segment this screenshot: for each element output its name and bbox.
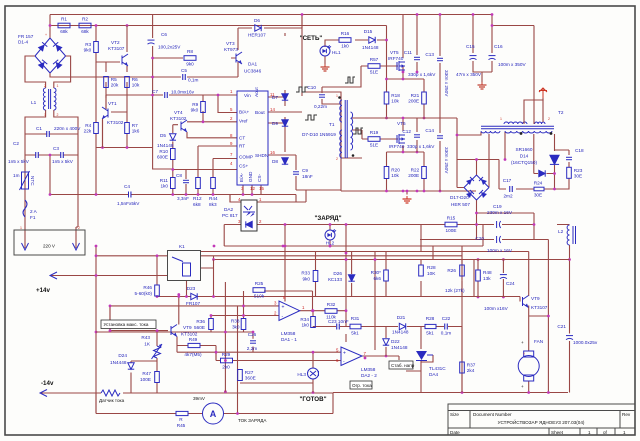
capacitor C16 [489, 44, 527, 67]
wire C1 row [25, 133, 78, 135]
svg-text:1K: 1K [144, 342, 151, 347]
svg-text:1N4448: 1N4448 [110, 360, 127, 365]
svg-text:+: + [282, 305, 285, 311]
svg-text:Стаб. напр: Стаб. напр [391, 363, 415, 368]
svg-text:D15: D15 [364, 29, 373, 34]
resistor R4 [84, 123, 99, 134]
svg-text:HL1: HL1 [332, 50, 341, 55]
wire R57 row [341, 66, 398, 87]
svg-text:C10: C10 [307, 85, 316, 90]
capacitor C15 [456, 44, 482, 77]
svg-text:1: 1 [57, 84, 59, 88]
svg-text:R9: R9 [192, 102, 198, 107]
svg-text:HER107: HER107 [248, 33, 266, 38]
meter A [203, 403, 224, 424]
svg-text:R8: R8 [187, 49, 193, 54]
diode D15 [362, 29, 379, 50]
svg-text:1n5 x 5kV: 1n5 x 5kV [8, 159, 30, 164]
svg-text:6k8: 6k8 [193, 202, 201, 207]
svg-text:R15: R15 [447, 215, 456, 220]
svg-text:KT3102: KT3102 [170, 116, 187, 121]
svg-text:560E: 560E [194, 325, 205, 330]
wire IC right [268, 90, 302, 190]
svg-text:R24: R24 [534, 181, 543, 186]
lamp HL3 [297, 368, 318, 379]
svg-text:2: 2 [336, 157, 338, 161]
waveform glyph 3 [345, 77, 355, 83]
svg-text:КС133: КС133 [328, 277, 342, 282]
label ogr [350, 381, 372, 389]
svg-text:D23: D23 [187, 286, 196, 291]
wire R25 feedback [264, 291, 313, 311]
wire DA2 wires [313, 327, 399, 361]
wire R20 R22 col [387, 146, 425, 191]
wire aux bus R1 R2 row [50, 15, 310, 43]
diode D14a [511, 147, 559, 165]
resistor R30 [425, 324, 436, 328]
transistor VT3 [224, 41, 242, 64]
wire VT3 [231, 28, 238, 77]
wire DA2 minus in row [216, 352, 341, 360]
resistor R15 [445, 215, 457, 233]
relay K1 [168, 244, 201, 281]
wire meter row [96, 393, 333, 414]
svg-text:D6: D6 [254, 18, 260, 23]
junction right rails [568, 258, 571, 261]
svg-text:VT9: VT9 [531, 296, 540, 301]
svg-text:R7: R7 [132, 123, 138, 128]
svg-text:30E: 30E [534, 193, 542, 198]
waveform glyph 1 [296, 87, 308, 92]
svg-text:+: + [521, 384, 524, 389]
capacitor C3 [52, 146, 74, 164]
diode D14b [539, 170, 545, 176]
svg-text:R28: R28 [426, 316, 435, 321]
wire D14 R24 area [499, 150, 569, 189]
svg-text:1k6: 1k6 [132, 129, 140, 134]
wire DA1 minus in row [211, 291, 279, 319]
svg-text:Rev: Rev [622, 412, 631, 417]
svg-text:(16CTQ150): (16CTQ150) [511, 160, 537, 165]
svg-text:100m x 16V: 100m x 16V [487, 248, 513, 253]
svg-text:3k0: 3k0 [232, 325, 240, 330]
transformer T1 [329, 96, 354, 158]
svg-text:5-60(k0): 5-60(k0) [135, 291, 153, 296]
svg-text:F1: F1 [30, 215, 36, 220]
resistor R49 [188, 343, 200, 347]
svg-text:5k1: 5k1 [426, 331, 434, 336]
svg-text:1N4148: 1N4148 [391, 345, 408, 350]
svg-text:D8: D8 [272, 159, 278, 164]
capacitor C4 [117, 184, 140, 206]
diode D23 [186, 286, 200, 306]
svg-text:R33: R33 [301, 271, 310, 276]
resistor R26 [460, 265, 465, 276]
wire R18 R21 col [387, 72, 425, 118]
svg-text:1: 1 [20, 226, 22, 230]
diode D8 [272, 158, 288, 164]
capacitor C7 [152, 89, 195, 98]
wire R36 R38 bottoms [211, 330, 244, 333]
svg-text:HL3: HL3 [297, 372, 306, 377]
junction HL2 top [329, 223, 332, 226]
wire res row bottoms [352, 281, 462, 297]
svg-text:FR 157: FR 157 [18, 34, 34, 39]
junction H2 dots [126, 24, 129, 27]
resistor R8 [184, 49, 196, 67]
resistor R38 [241, 319, 246, 330]
svg-text:4k7(M5): 4k7(M5) [184, 352, 202, 357]
arrow plus14 [50, 272, 57, 279]
svg-text:"ЗАРЯД": "ЗАРЯД" [314, 215, 341, 222]
diode D22 [383, 339, 408, 350]
svg-text:R4: R4 [85, 123, 91, 128]
wire top bus [50, 14, 492, 16]
diode D7 [272, 94, 288, 100]
svg-text:R48: R48 [483, 270, 492, 275]
svg-text:R19: R19 [370, 130, 379, 135]
svg-text:2,2m: 2,2m [247, 346, 258, 351]
svg-text:VT3: VT3 [226, 41, 235, 46]
wire minus14 row [40, 392, 96, 394]
optocoupler DA2 PC817 [222, 197, 262, 231]
junction C2C3 mid [49, 154, 52, 157]
svg-text:100E: 100E [446, 228, 457, 233]
svg-text:R2: R2 [82, 16, 88, 21]
svg-text:C3: C3 [53, 146, 59, 151]
wire C13 col [439, 15, 441, 119]
svg-text:R5: R5 [111, 77, 117, 82]
svg-text:1N4148: 1N4148 [157, 143, 174, 148]
svg-text:330p x 1,6kV: 330p x 1,6kV [408, 72, 436, 77]
zener D26 [328, 271, 355, 282]
wire VT2 base row [96, 52, 127, 72]
svg-text:DA1: DA1 [248, 62, 258, 67]
svg-text:22k: 22k [84, 129, 92, 134]
svg-text:1: 1 [336, 94, 338, 98]
svg-text:C15: C15 [466, 44, 475, 49]
svg-text:B/A+: B/A+ [239, 110, 250, 115]
svg-text:C9: C9 [302, 168, 308, 173]
resistor R3 [84, 42, 99, 53]
svg-text:T1: T1 [329, 122, 335, 127]
svg-text:DA2 - 2: DA2 - 2 [361, 373, 377, 378]
svg-text:T2: T2 [558, 110, 564, 115]
svg-text:R11: R11 [160, 178, 169, 183]
wire C15 drop [473, 15, 492, 83]
svg-text:R43: R43 [141, 335, 150, 340]
choke L1 [31, 88, 56, 110]
junction R18 col [385, 39, 388, 42]
svg-text:2: 2 [57, 113, 59, 117]
wire HL3 [240, 379, 313, 393]
junction C4 bus dots [171, 193, 174, 196]
svg-text:1: 1 [44, 113, 46, 117]
svg-text:LM358: LM358 [361, 367, 376, 372]
capacitor C6 [148, 32, 182, 50]
svg-text:330n x 250V: 330n x 250V [444, 147, 449, 174]
resistor R37 [460, 362, 476, 373]
svg-text:C1: C1 [36, 126, 42, 131]
resistor R18 [384, 92, 400, 104]
thermistor NTC [13, 171, 35, 190]
svg-text:12k (27k): 12k (27k) [445, 288, 465, 293]
waveform glyph 4 [353, 128, 363, 134]
shunt TL431 DA4 [416, 351, 446, 377]
junction minus in [242, 314, 245, 317]
capacitor C14 [425, 128, 449, 174]
resistor R1 [58, 16, 70, 34]
svg-text:C16: C16 [494, 44, 503, 49]
wire L1 bottoms [25, 110, 78, 240]
svg-text:KT3102: KT3102 [181, 332, 198, 337]
svg-text:6k6: 6k6 [373, 276, 381, 281]
svg-text:IRF740: IRF740 [388, 56, 404, 61]
svg-text:Sheet: Sheet [551, 430, 564, 435]
mosfet VT6 [389, 121, 406, 149]
svg-text:D26: D26 [333, 271, 342, 276]
svg-text:10k: 10k [391, 99, 399, 104]
svg-text:1k0: 1k0 [341, 43, 349, 48]
resistor R9 [191, 102, 206, 113]
wire D6 row [238, 15, 302, 29]
power arrow T2 [539, 88, 547, 98]
wire bridge left arm [25, 56, 71, 88]
svg-text:-14v: -14v [41, 380, 54, 387]
trimmer R43 [141, 335, 162, 359]
svg-text:1: 1 [588, 430, 591, 435]
wire VT2 collector [126, 26, 128, 53]
svg-text:FR107: FR107 [186, 301, 200, 306]
capacitor C20 [475, 236, 512, 253]
capacitor C12 [402, 129, 435, 149]
svg-text:C18: C18 [575, 148, 584, 153]
title block [448, 404, 635, 435]
sensor zigzag [101, 390, 120, 396]
svg-text:200E: 200E [408, 99, 419, 104]
svg-text:2: 2 [44, 84, 46, 88]
svg-text:R45: R45 [177, 423, 186, 428]
svg-text:2: 2 [548, 117, 550, 121]
inductor L2 [558, 225, 576, 245]
svg-text:D7-D10 1N5919: D7-D10 1N5919 [302, 132, 336, 137]
diode D24 [110, 353, 134, 369]
svg-text:51E: 51E [370, 69, 378, 74]
svg-text:18nF: 18nF [302, 174, 313, 179]
svg-text:VT5: VT5 [390, 50, 399, 55]
svg-text:VT6: VT6 [397, 121, 406, 126]
svg-text:R6: R6 [132, 77, 138, 82]
wire VT10 [528, 306, 530, 317]
wire VT5 drain col [402, 15, 404, 73]
svg-text:100,2x25V: 100,2x25V [158, 45, 181, 50]
transformer T2 [481, 110, 564, 135]
svg-text:9k0: 9k0 [302, 277, 310, 282]
svg-text:DA2: DA2 [224, 207, 234, 212]
capacitor C5 [181, 68, 199, 83]
svg-text:C12: C12 [402, 129, 411, 134]
svg-text:1: 1 [623, 430, 626, 435]
svg-text:D5: D5 [160, 133, 166, 138]
svg-text:39mV: 39mV [193, 396, 206, 401]
svg-text:R18: R18 [391, 93, 400, 98]
svg-text:200E: 200E [408, 173, 419, 178]
svg-text:R1: R1 [61, 16, 67, 21]
junction VT6 rows [402, 117, 405, 120]
junction lower mid dots [210, 314, 213, 317]
svg-text:10,0mx16v: 10,0mx16v [171, 90, 195, 95]
svg-text:KT3107: KT3107 [108, 46, 125, 51]
wire T2 secondary drops [457, 132, 555, 189]
junction low rail [101, 146, 104, 149]
svg-text:360E: 360E [245, 376, 256, 381]
svg-text:R38: R38 [231, 319, 240, 324]
resistor R10 [157, 149, 175, 160]
svg-text:30E: 30E [574, 173, 582, 178]
lamp HL1 [320, 46, 341, 57]
wire rail y297 [157, 279, 520, 302]
resistor R24 [534, 187, 544, 191]
wire rail y246 [96, 225, 483, 260]
resistor R48 [476, 270, 481, 281]
wire C4 ground bus [50, 195, 296, 203]
svg-text:C17: C17 [503, 178, 512, 183]
svg-text:R30*: R30* [371, 270, 382, 275]
svg-text:220 V: 220 V [43, 244, 56, 249]
resistor R11 [160, 178, 175, 189]
capacitor C22 [441, 316, 452, 336]
svg-text:1k0: 1k0 [160, 184, 168, 189]
svg-text:VT1: VT1 [108, 101, 117, 106]
svg-text:+: + [343, 351, 346, 357]
svg-text:R16: R16 [341, 31, 350, 36]
wire opto right col [284, 225, 286, 247]
transistor VT1 [102, 101, 124, 125]
svg-text:2k4: 2k4 [467, 368, 475, 373]
svg-text:8k3: 8k3 [209, 202, 217, 207]
svg-text:0,22m: 0,22m [314, 104, 327, 109]
svg-text:DA4: DA4 [429, 372, 439, 377]
svg-text:220n x 400V: 220n x 400V [54, 126, 81, 131]
wire D21 D22 TL431 [375, 225, 462, 393]
wire FAN col [529, 316, 549, 393]
resistor R5 [104, 77, 119, 88]
svg-text:C5: C5 [181, 68, 187, 73]
svg-text:68k: 68k [81, 29, 89, 34]
svg-text:1N4148: 1N4148 [392, 330, 409, 335]
svg-text:0,1m: 0,1m [188, 78, 199, 83]
wire relay area [50, 246, 238, 414]
svg-text:510k: 510k [254, 293, 265, 298]
svg-text:10K: 10K [427, 271, 436, 276]
svg-text:C7: C7 [152, 89, 158, 94]
svg-text:9k0: 9k0 [186, 61, 194, 66]
diode D9 [272, 120, 288, 126]
svg-text:R29: R29 [222, 352, 231, 357]
svg-text:L1: L1 [31, 100, 37, 105]
svg-text:R57: R57 [370, 57, 379, 62]
wire DA2 plus in row [177, 337, 341, 369]
capacitor C11 [404, 50, 437, 77]
junction FAN col [547, 315, 550, 318]
svg-text:HER 507: HER 507 [451, 202, 470, 207]
resistor R6 [125, 77, 140, 88]
svg-text:16: 16 [270, 150, 275, 155]
svg-text:R26: R26 [447, 268, 456, 273]
svg-text:CS-: CS- [257, 173, 262, 182]
svg-text:NTC: NTC [30, 176, 35, 186]
junction relay rail dots [95, 274, 98, 277]
svg-text:0,1m: 0,1m [441, 331, 452, 336]
svg-text:C4: C4 [124, 184, 130, 189]
wire VT9 area [96, 297, 333, 394]
svg-text:2 A: 2 A [30, 209, 38, 214]
wire bottom right rail [333, 246, 568, 393]
svg-text:D17-D20: D17-D20 [450, 195, 469, 200]
wire C12 C14 cols [417, 118, 440, 191]
svg-text:LM358: LM358 [281, 331, 296, 336]
wire DA1 out [285, 225, 346, 327]
svg-text:SR1660: SR1660 [516, 147, 533, 152]
svg-text:SHDN: SHDN [255, 153, 268, 158]
svg-text:330n x 250V: 330n x 250V [444, 70, 449, 97]
wire R9 stub [202, 95, 204, 102]
wire C2 C3 row [25, 155, 78, 195]
transistor VT2 [108, 40, 128, 66]
capacitor C19 [487, 204, 513, 228]
wire VT1 emitter link [103, 95, 107, 148]
wire bridge riser junction [49, 24, 52, 27]
resistor R32 [325, 302, 337, 320]
resistor R31 [350, 324, 361, 329]
svg-text:13k: 13k [483, 276, 491, 281]
IC DA1 UC3846 [230, 62, 275, 192]
svg-text:D9: D9 [272, 121, 278, 126]
wire R11 C8 R12 R44 tops [173, 146, 213, 179]
resistor R36 [209, 319, 214, 330]
svg-text:R3: R3 [85, 42, 91, 47]
capacitor C10 [307, 85, 341, 109]
wire VT4 col [173, 111, 203, 170]
wire opto rows [224, 190, 421, 252]
ground C15 C16 [478, 82, 487, 89]
wire C11 col [416, 15, 418, 73]
transistor VT4 [170, 110, 187, 132]
svg-text:CS+: CS+ [239, 164, 249, 169]
wire rail y252 [201, 252, 529, 297]
svg-text:14: 14 [270, 107, 275, 112]
svg-text:R32: R32 [327, 302, 336, 307]
resistor R20 [384, 167, 400, 179]
svg-text:100m x16V: 100m x16V [484, 306, 509, 311]
svg-text:KT973: KT973 [224, 47, 238, 52]
svg-text:УСТРОЙСТВОЗАР ЯДНОЕУЗ 207.03(0: УСТРОЙСТВОЗАР ЯДНОЕУЗ 207.03(04) [498, 418, 585, 425]
wire bottom of R11 group [173, 184, 213, 195]
mains socket 220V [14, 230, 85, 255]
wire R15 row [420, 213, 534, 240]
svg-text:51E: 51E [370, 142, 378, 147]
wire rail y259 [214, 260, 570, 298]
waveform glyph 2 [305, 115, 317, 120]
capacitor C8 [176, 173, 189, 201]
junction DA2 out [385, 355, 388, 358]
svg-text:2m2: 2m2 [503, 194, 513, 199]
svg-text:R22: R22 [411, 168, 420, 173]
svg-text:2k0: 2k0 [222, 365, 230, 370]
svg-text:COMP: COMP [239, 155, 253, 160]
svg-text:E/A-: E/A- [239, 172, 244, 182]
ground near HL1 [321, 64, 330, 71]
